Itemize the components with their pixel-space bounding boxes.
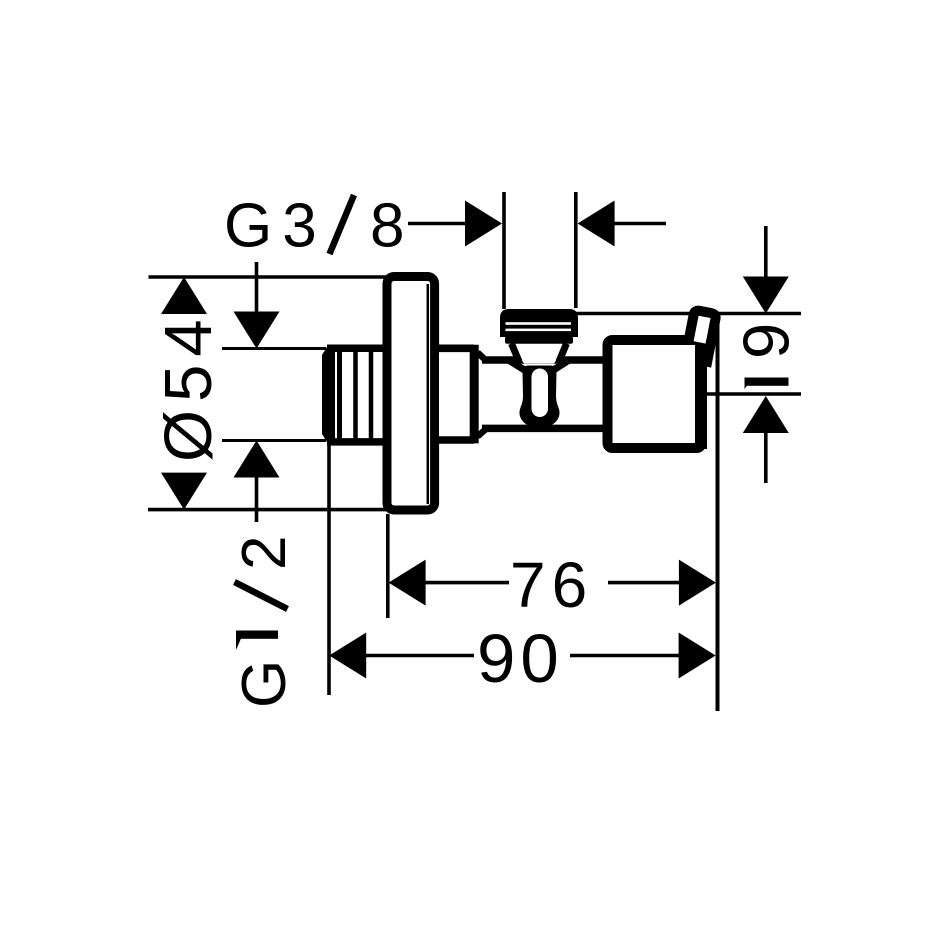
dim G1/2 down arrow bbox=[234, 312, 280, 349]
dim Ø54 top extension line bbox=[149, 275, 387, 279]
dim 90 line right bbox=[570, 654, 680, 658]
body tube bottom chamfer bbox=[478, 429, 487, 437]
body tube bottom edge bbox=[482, 425, 609, 433]
dim G1/2 top extension line bbox=[222, 347, 326, 350]
svg-text:76: 76 bbox=[510, 549, 593, 621]
body tube top edge bbox=[482, 356, 609, 364]
dim 90 right arrow bbox=[679, 633, 716, 679]
dim G1/2 lower stem bbox=[255, 477, 259, 522]
dim G3/8 right-pointing arrow bbox=[465, 201, 502, 247]
svg-text:2: 2 bbox=[230, 536, 299, 570]
dim G1/2 label slash bbox=[235, 582, 288, 609]
dim 19 lower stem bbox=[764, 433, 768, 484]
dim G3/8 leader line right bbox=[613, 222, 666, 226]
handle lever bbox=[684, 310, 716, 367]
G1/2 male thread left face bbox=[322, 345, 335, 445]
collar top edge bbox=[434, 344, 474, 352]
handle knob right edge bbox=[695, 339, 707, 449]
dim 19 down arrow bbox=[743, 277, 789, 314]
handle lever slot bbox=[693, 316, 711, 344]
dim G3/8 right extension line bbox=[574, 192, 578, 308]
dim 76 line right bbox=[608, 581, 680, 585]
wall flange rosette Ø54 bbox=[387, 277, 435, 511]
cap neck interior bbox=[511, 344, 567, 364]
dim 76 left extension line bbox=[386, 514, 390, 618]
handle knob bbox=[608, 340, 702, 448]
dim G1/2 up arrow bbox=[234, 441, 280, 478]
dim Ø54 down arrow bbox=[161, 473, 207, 510]
G1/2 male thread bottom edge bbox=[327, 438, 387, 446]
dim G1/2 bottom extension line bbox=[222, 439, 326, 442]
svg-text:Ø54: Ø54 bbox=[151, 311, 226, 462]
G3/8 compression cap bbox=[500, 309, 578, 337]
cap neck left side bbox=[512, 344, 520, 362]
dim G3/8 left extension line bbox=[502, 192, 506, 309]
dim 76 line left bbox=[424, 581, 509, 585]
dim 19 label digit 1 bbox=[745, 378, 789, 386]
svg-text:G: G bbox=[230, 660, 299, 708]
valve plug body bbox=[519, 366, 559, 428]
svg-text:9: 9 bbox=[730, 323, 803, 359]
collar interior bbox=[439, 352, 470, 436]
valve funnel right diagonal bbox=[550, 360, 571, 373]
thread crest line 2 bbox=[353, 349, 358, 440]
dim 76 left arrow bbox=[389, 560, 426, 606]
thread crest line 1 bbox=[337, 349, 342, 440]
dim G1/2 upper stem bbox=[255, 262, 259, 312]
valve plug slot bbox=[532, 369, 549, 418]
thread crest line 3 bbox=[369, 349, 374, 440]
dim G3/8 leader line left bbox=[408, 222, 467, 226]
valve funnel left diagonal bbox=[508, 360, 529, 373]
dim 76 right arrow bbox=[679, 560, 716, 606]
svg-text:G3: G3 bbox=[224, 192, 327, 261]
dim G3/8 label slash bbox=[330, 195, 355, 254]
dim 90 line left bbox=[365, 654, 474, 658]
svg-text:90: 90 bbox=[477, 620, 564, 697]
svg-text:8: 8 bbox=[370, 192, 404, 261]
rosette face line bbox=[427, 284, 430, 504]
cap neck right side bbox=[559, 344, 567, 362]
body tube top chamfer bbox=[478, 353, 487, 361]
collar right edge bbox=[470, 345, 479, 444]
dim 19 up arrow bbox=[743, 396, 789, 433]
dim Ø54 up arrow bbox=[161, 277, 207, 314]
dim 19 upper stem bbox=[764, 226, 768, 278]
dim 90 left extension line bbox=[327, 444, 331, 695]
dim 19 top extension line bbox=[574, 312, 801, 316]
cap lower band bbox=[505, 337, 573, 344]
G1/2 male thread top edge bbox=[327, 344, 387, 352]
dim G3/8 left-pointing arrow bbox=[578, 201, 615, 247]
collar bottom edge bbox=[434, 436, 474, 444]
cap ridge white line 2 bbox=[506, 329, 572, 332]
dim 90 left arrow bbox=[329, 633, 366, 679]
dim G1/2 label digit 1 bbox=[236, 631, 278, 639]
dim Ø54 bottom extension line bbox=[148, 508, 386, 512]
dim 19 bottom extension line bbox=[706, 392, 801, 396]
dim 76 90 right extension line bbox=[716, 314, 720, 712]
cap ridge white line 1 bbox=[506, 322, 572, 325]
